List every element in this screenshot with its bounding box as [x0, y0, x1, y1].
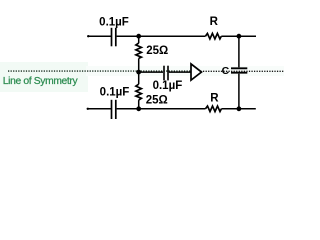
svg-text:Line of Symmetry: Line of Symmetry [3, 76, 79, 87]
node A: top junction of 25 ohm chain [136, 34, 141, 39]
svg-text:R: R [210, 16, 219, 28]
wire: bottom rail from C2 to resistor R (bottom) [117, 108, 206, 110]
wire: top rail from C1 to resistor R (top) [117, 35, 206, 37]
op-amp U1 (buffer triangle) [191, 64, 202, 80]
node E: bottom right junction [237, 106, 242, 111]
svg-text:25Ω: 25Ω [146, 45, 168, 57]
wire: capacitor C down to node E [238, 74, 240, 109]
wire: node B down to lower 25 ohm resistor [138, 72, 140, 84]
wire: top input segment (left of C1) [88, 35, 111, 37]
svg-text:0.1µF: 0.1µF [100, 86, 130, 98]
node C: bottom junction of 25 ohm chain [136, 106, 141, 111]
svg-text:R: R [210, 93, 219, 105]
resistor 25 ohm (upper) [136, 43, 142, 58]
capacitor C2 0.1uF (bottom left) [112, 100, 116, 119]
wire: node B to middle capacitor C3 [139, 71, 163, 73]
resistor R (top) [205, 33, 221, 39]
wire: top rail, resistor R (top) to node D and output [221, 35, 256, 37]
node B: center junction on line of symmetry [136, 70, 141, 75]
wire: upper 25 ohm to node B [138, 58, 140, 72]
wire: C3 to op-amp input [169, 71, 191, 73]
wire: lower 25 ohm to node C (bottom junction) [138, 100, 140, 109]
capacitor C3 0.1uF (middle, on line of symmetry) [164, 66, 168, 81]
svg-text:C: C [222, 65, 230, 77]
node D: top right junction [237, 34, 242, 39]
svg-text:0.1µF: 0.1µF [99, 16, 129, 28]
wire: node D down to capacitor C [238, 36, 240, 67]
wire: bottom rail, resistor R (bottom) to node E and output [221, 108, 255, 110]
wire: node A down to upper 25 ohm resistor [138, 36, 140, 43]
svg-text:0.1µF: 0.1µF [153, 80, 183, 92]
resistor R (bottom) [206, 106, 222, 112]
svg-text:25Ω: 25Ω [146, 95, 168, 107]
resistor 25 ohm (lower) [136, 84, 142, 100]
capacitor C (vertical, right side) [231, 68, 247, 72]
line of symmetry (right portion, over op-amp output to C) [203, 70, 284, 72]
capacitor C1 0.1uF (top left) [112, 28, 116, 47]
wire: bottom input segment (left of C2) [88, 108, 111, 110]
line of symmetry (green dotted) [8, 70, 202, 72]
